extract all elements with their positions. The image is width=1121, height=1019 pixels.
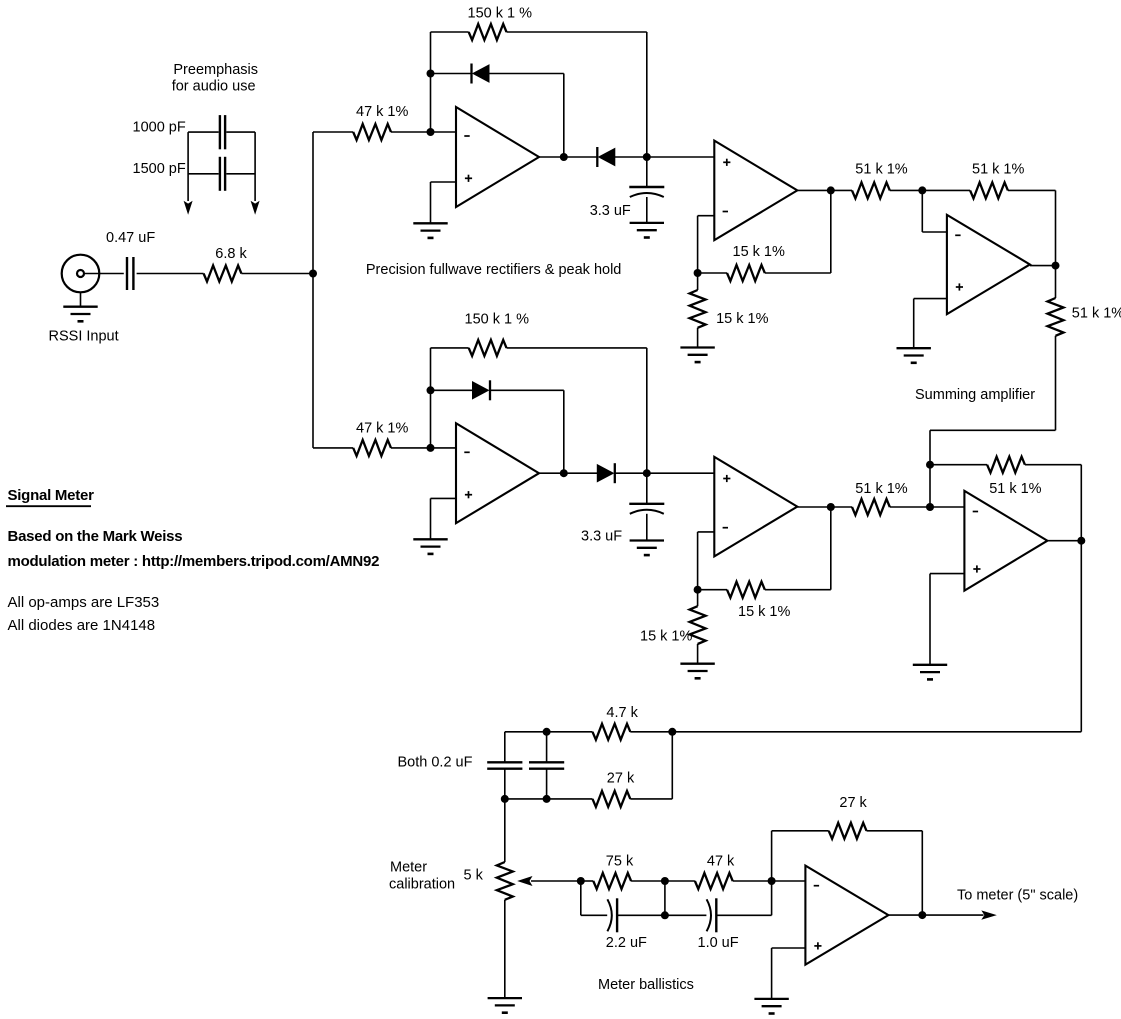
wire preemphasis right leg <box>254 132 256 201</box>
svg-text:Preemphasis: Preemphasis <box>173 62 258 78</box>
wire node A to R 47k bottom <box>313 447 353 449</box>
op-amp U6 summing <box>964 491 1047 591</box>
wire pot to ground <box>504 900 506 998</box>
arrow preemphasis right <box>251 201 260 215</box>
wire preemphasis left leg <box>187 132 189 201</box>
label 1.0 uF <box>698 935 739 951</box>
wire junction riser U4 <box>430 348 432 448</box>
node wiper junction <box>577 877 585 885</box>
op-amp U2A buffer <box>714 141 797 241</box>
wire 2.2uF right leg <box>617 914 665 916</box>
wire 1.0uF right leg <box>716 881 771 915</box>
wire U7 output <box>888 914 983 916</box>
ground 3.3uF ch1 <box>630 223 664 238</box>
svg-text:47 k 1%: 47 k 1% <box>356 104 408 120</box>
wire U3 output <box>1030 265 1056 267</box>
wire mid node drop <box>664 881 666 915</box>
label Meter ballistics <box>598 977 694 993</box>
svg-text:51 k 1%: 51 k 1% <box>855 481 907 497</box>
wire shunt to ground ch1 <box>697 328 699 348</box>
wire 1.0uF left leg <box>665 914 707 916</box>
svg-text:51 k 1%: 51 k 1% <box>989 481 1041 497</box>
node U2A output <box>827 186 835 194</box>
label 150 k 1 % ch1 <box>468 6 533 22</box>
diode D3 feedback ch2 <box>473 380 491 400</box>
svg-text:modulation meter : http://memb: modulation meter : http://members.tripod… <box>8 553 380 570</box>
ground 15k shunt ch2 <box>680 664 714 679</box>
wire U7 feedback riser <box>772 831 829 881</box>
node summing junction U4 <box>427 444 435 452</box>
svg-text:27 k: 27 k <box>607 771 635 787</box>
node summing amp input <box>918 186 926 194</box>
svg-text:Meter: Meter <box>390 860 427 876</box>
svg-text:51 k 1%: 51 k 1% <box>1072 306 1121 322</box>
svg-text:150 k 1 %: 150 k 1 % <box>465 312 530 328</box>
wire U6 output drop to meter stage <box>1080 541 1082 732</box>
svg-text:Signal Meter: Signal Meter <box>8 487 95 504</box>
svg-text:Based on the Mark Weiss: Based on the Mark Weiss <box>8 528 183 545</box>
resistor R 51 k 1% series ch2 <box>852 499 890 515</box>
diode D4 output ch2 <box>597 463 615 483</box>
svg-text:5 k: 5 k <box>464 868 484 884</box>
resistor 6.8 k <box>204 266 242 282</box>
label Both 0.2 uF <box>398 755 473 771</box>
wire junction riser U1 <box>430 32 432 132</box>
op-amp U7 meter driver <box>805 866 888 965</box>
wire peak node to U5 input <box>647 472 715 474</box>
resistor R 47 k 1% ch1 <box>353 124 391 140</box>
note All diodes are 1N4148 <box>8 617 156 634</box>
svg-text:47 k: 47 k <box>707 854 735 870</box>
wire node A to R 47k top <box>313 131 353 133</box>
capacitor C 3.3 uF ch2 <box>629 504 664 514</box>
wire 51k to summing node 2 <box>890 506 965 508</box>
wire meter bottom rail <box>505 798 673 800</box>
resistor R 150 k 1% ch1 <box>469 24 507 40</box>
label Precision fullwave rectifiers <box>366 262 621 278</box>
label 5 k <box>464 868 484 884</box>
wire meter top rail <box>505 731 1082 733</box>
node U1A output <box>560 153 568 161</box>
capacitor C 0.2 uF a <box>487 762 522 768</box>
title Signal Meter <box>6 487 94 506</box>
capacitor C 1.0 uF <box>707 898 717 932</box>
svg-text:15 k 1%: 15 k 1% <box>733 244 785 260</box>
wire feedback to U7 output <box>867 831 923 915</box>
wire diode feedback ch2 <box>431 389 473 391</box>
svg-text:1000 pF: 1000 pF <box>133 119 186 135</box>
capacitor 0.47 uF <box>127 257 133 290</box>
node diode feedback tap U4 <box>427 386 435 394</box>
label 1500 pF <box>133 161 186 177</box>
arrow to meter <box>981 910 997 919</box>
label 51 k 1% feedback sum2 <box>989 481 1041 497</box>
label calibration <box>389 877 455 893</box>
resistor R 4.7 k <box>593 724 631 740</box>
label 1000 pF <box>133 119 186 135</box>
wire U5A output <box>797 506 852 508</box>
label 27 k parallel <box>607 771 635 787</box>
node summing junction U1 <box>427 128 435 136</box>
wire D2 to peak node ch1 <box>615 156 647 158</box>
node summing amp 2 input <box>926 503 934 511</box>
svg-text:To meter (5" scale): To meter (5" scale) <box>957 888 1078 904</box>
svg-text:15 k 1%: 15 k 1% <box>640 629 692 645</box>
resistor R 27 k parallel <box>593 791 631 807</box>
svg-text:1.0 uF: 1.0 uF <box>698 935 739 951</box>
node mid ballistics <box>661 877 669 885</box>
node U6 output <box>1077 537 1085 545</box>
wire rail to potentiometer <box>504 799 506 862</box>
node feedback junction U2A <box>694 269 702 277</box>
wire junction to R15k ch2 <box>698 589 727 591</box>
node peak hold ch1 <box>643 153 651 161</box>
svg-text:51 k 1%: 51 k 1% <box>855 162 907 178</box>
wire second cap leg lower <box>546 769 548 799</box>
capacitor C 0.2 uF b <box>529 762 564 768</box>
node peak hold ch2 <box>643 469 651 477</box>
node feedback tap sum2 <box>926 461 934 469</box>
label Summing amplifier <box>915 387 1035 403</box>
wire 15k to output riser ch1 <box>765 190 831 273</box>
wire connector to capacitor <box>84 273 124 275</box>
label 15 k 1% feedback ch2 <box>738 604 790 620</box>
wire 47k to op-amp U4 inverting input <box>391 447 456 449</box>
svg-text:0.47 uF: 0.47 uF <box>106 230 155 246</box>
label 15 k 1% shunt ch1 <box>716 311 768 327</box>
svg-text:3.3 uF: 3.3 uF <box>581 529 622 545</box>
wire U3 noninverting to ground <box>914 299 947 349</box>
label for audio use <box>172 79 256 95</box>
wire feedback run sum2 <box>930 464 987 466</box>
svg-text:3.3 uF: 3.3 uF <box>590 203 631 219</box>
arrow preemphasis left <box>184 201 193 215</box>
svg-text:Precision fullwave rectifiers: Precision fullwave rectifiers & peak hol… <box>366 262 621 278</box>
wire U4A output <box>539 472 598 474</box>
capacitor 1500 pF <box>188 157 255 191</box>
node A input split <box>309 270 317 278</box>
resistor R 47 k 1% ch2 <box>353 440 391 456</box>
label 15 k 1% shunt ch2 <box>640 629 692 645</box>
capacitor C 3.3 uF ch1 <box>629 187 664 197</box>
svg-text:All diodes are 1N4148: All diodes are 1N4148 <box>8 617 156 634</box>
label 6.8 k <box>215 246 247 262</box>
wire wiper to R75k <box>581 880 594 882</box>
label 75 k <box>606 854 634 870</box>
node feedback junction U5A <box>694 586 702 594</box>
svg-text:4.7 k: 4.7 k <box>606 705 638 721</box>
node U4A output <box>560 469 568 477</box>
wire U4A noninverting to ground <box>431 498 457 539</box>
wire feedback top run ch1 <box>431 31 469 33</box>
svg-text:for audio use: for audio use <box>172 79 256 95</box>
ground 15k shunt ch1 <box>680 348 714 363</box>
op-amp U3 summing <box>947 215 1030 314</box>
label 51 k 1% series ch2 <box>855 481 907 497</box>
wire summing inverting jog <box>922 190 947 232</box>
ground potentiometer <box>488 998 522 1013</box>
svg-text:RSSI Input: RSSI Input <box>49 329 119 345</box>
wire 75k to mid node <box>631 880 665 882</box>
svg-text:15 k 1%: 15 k 1% <box>738 604 790 620</box>
diode D1 feedback ch1 <box>472 64 490 84</box>
svg-text:Both 0.2 uF: Both 0.2 uF <box>398 755 473 771</box>
label 3.3 uF ch1 <box>590 203 631 219</box>
wire shunt to ground ch2 <box>697 644 699 664</box>
label 2.2 uF <box>606 935 647 951</box>
resistor R 150 k 1% ch2 <box>469 340 507 356</box>
wire U1A output <box>539 156 597 158</box>
label Meter <box>390 860 427 876</box>
svg-text:2.2 uF: 2.2 uF <box>606 935 647 951</box>
wire diode D1 to output drop <box>489 74 564 158</box>
op-amp U5A buffer <box>714 457 797 557</box>
svg-text:Meter ballistics: Meter ballistics <box>598 977 694 993</box>
wire 15k to output riser ch2 <box>765 507 831 590</box>
node top rail right <box>668 728 676 736</box>
resistor R 15 k 1% shunt ch1 <box>690 273 706 328</box>
resistor R 15 k 1% feedback ch1 <box>727 265 765 281</box>
svg-text:All op-amps are LF353: All op-amps are LF353 <box>8 594 160 611</box>
wire U5A inverting jog <box>698 532 715 590</box>
wire 2.2uF left leg <box>581 881 607 915</box>
potentiometer 5 k <box>497 862 581 900</box>
wire second cap leg upper <box>546 732 548 763</box>
wire 150k to right drop ch2 <box>507 348 647 473</box>
node U7 output <box>918 911 926 919</box>
wire feedback to output sum2 <box>1025 465 1081 541</box>
wire parallel right leg <box>671 732 673 799</box>
wire input riser <box>312 132 314 448</box>
svg-text:51 k 1%: 51 k 1% <box>972 162 1024 178</box>
wire cap to ground ch2 <box>646 514 648 541</box>
label 47 k 1% ch1 <box>356 104 408 120</box>
node bottom rail cap2 <box>543 795 551 803</box>
node top rail cap2 <box>543 728 551 736</box>
wire mid to R47k <box>665 880 695 882</box>
resistor R 15 k 1% feedback ch2 <box>727 582 765 598</box>
wire U2A output <box>797 189 852 191</box>
wire cap to ground ch1 <box>646 197 648 223</box>
label 0.47 uF <box>106 230 155 246</box>
wire coupling down and left <box>930 336 1056 507</box>
RSSI input connector J1 <box>62 255 100 293</box>
wire output to R51k vertical <box>1055 266 1057 298</box>
note modulation meter url <box>8 553 380 570</box>
wire U6 output <box>1047 540 1081 542</box>
wire left cap leg upper <box>504 732 506 763</box>
resistor R 51 k 1% series ch1 <box>852 182 890 198</box>
svg-text:calibration: calibration <box>389 877 455 893</box>
node diode feedback tap U1 <box>427 70 435 78</box>
label 15 k 1% feedback ch1 <box>733 244 785 260</box>
resistor R 27 k feedback <box>829 823 867 839</box>
label 47 k ballistics <box>707 854 735 870</box>
note Based on the Mark Weiss <box>8 528 183 545</box>
resistor R 47 k ballistics <box>695 873 733 889</box>
ground U4A <box>413 539 447 554</box>
label 27 k feedback <box>839 795 867 811</box>
wire U1A noninverting to ground <box>431 182 457 223</box>
wire feedback to output sum1 <box>1008 190 1056 265</box>
label 51 k 1% series ch1 <box>855 162 907 178</box>
label 3.3 uF ch2 <box>581 529 622 545</box>
resistor R 51 k 1% feedback sum2 <box>987 457 1025 473</box>
resistor R 75 k <box>593 873 631 889</box>
node cap junction <box>661 911 669 919</box>
node U3 output <box>1052 262 1060 270</box>
wire 47k to U7 input node <box>733 880 772 882</box>
ground U7 <box>754 999 788 1014</box>
label 47 k 1% ch2 <box>356 421 408 437</box>
resistor R 15 k 1% shunt ch2 <box>690 590 706 644</box>
note All op-amps are LF353 <box>8 594 160 611</box>
node bottom rail left <box>501 795 509 803</box>
label RSSI Input <box>49 329 119 345</box>
ground connector <box>63 292 97 321</box>
svg-text:150 k 1 %: 150 k 1 % <box>468 6 533 22</box>
wire diode D3 to output drop <box>490 390 564 473</box>
label 51 k 1% feedback sum1 <box>972 162 1024 178</box>
wire U2A inverting jog <box>698 216 715 273</box>
ground 3.3uF ch2 <box>630 541 664 556</box>
ground U6 <box>913 665 947 680</box>
label To meter 5 inch scale <box>957 888 1078 904</box>
wire peak cap drop ch1 <box>646 157 648 187</box>
wire 47k to op-amp U1 inverting input <box>391 131 456 133</box>
wire node to U7 <box>772 880 806 882</box>
ground U1A <box>413 223 447 238</box>
wire summing feedback run <box>922 189 970 191</box>
label Preemphasis <box>173 62 258 78</box>
wire peak cap drop ch2 <box>646 473 648 504</box>
wire peak node to U2 input <box>647 156 715 158</box>
op-amp U1A <box>456 107 539 207</box>
wire 51k to summing node <box>890 189 923 191</box>
wire 150k to right drop ch1 <box>507 32 647 157</box>
wire feedback top run ch2 <box>431 347 469 349</box>
svg-text:1500 pF: 1500 pF <box>133 161 186 177</box>
svg-text:75 k: 75 k <box>606 854 634 870</box>
label 150 k 1 % ch2 <box>465 312 530 328</box>
svg-text:27 k: 27 k <box>839 795 867 811</box>
capacitor C 2.2 uF <box>607 898 617 932</box>
svg-text:Summing amplifier: Summing amplifier <box>915 387 1035 403</box>
node U5A output <box>827 503 835 511</box>
wire resistor to node A <box>241 273 313 275</box>
capacitor 1000 pF <box>188 115 255 149</box>
wire U6 noninverting to ground <box>930 574 964 665</box>
wire diode feedback ch1 <box>431 73 472 75</box>
resistor R 51 k 1% feedback sum1 <box>970 182 1008 198</box>
wire capacitor to resistor <box>137 273 204 275</box>
svg-text:6.8 k: 6.8 k <box>215 246 247 262</box>
label 4.7 k <box>606 705 638 721</box>
wire U7 noninverting to ground <box>772 948 806 999</box>
label 51 k 1% coupling <box>1072 306 1121 322</box>
wire junction to R15k ch1 <box>698 272 727 274</box>
ground U3 <box>897 348 931 363</box>
wire left cap leg lower <box>504 769 506 799</box>
resistor R 51 k 1% coupling <box>1048 298 1064 336</box>
svg-text:15 k 1%: 15 k 1% <box>716 311 768 327</box>
wire D4 to peak node ch2 <box>615 472 647 474</box>
diode D2 output ch1 <box>597 147 615 167</box>
node U7 inverting input <box>768 877 776 885</box>
svg-text:47 k 1%: 47 k 1% <box>356 421 408 437</box>
op-amp U4A <box>456 423 539 523</box>
